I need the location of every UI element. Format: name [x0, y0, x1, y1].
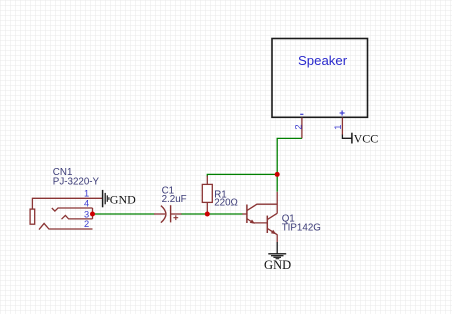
svg-text:GND: GND	[264, 258, 291, 272]
svg-text:2: 2	[84, 219, 89, 229]
svg-text:1: 1	[84, 188, 89, 198]
svg-text:4: 4	[84, 199, 89, 209]
svg-text:1: 1	[333, 125, 343, 130]
svg-text:2: 2	[294, 124, 304, 129]
svg-text:3: 3	[84, 209, 89, 219]
svg-text:PJ-3220-Y: PJ-3220-Y	[53, 177, 100, 188]
svg-text:220Ω: 220Ω	[214, 198, 238, 209]
svg-text:GND: GND	[110, 192, 136, 206]
svg-text:Speaker: Speaker	[298, 53, 348, 68]
svg-text:TIP142G: TIP142G	[282, 223, 321, 234]
svg-text:2.2uF: 2.2uF	[162, 194, 187, 205]
svg-text:VCC: VCC	[354, 132, 379, 146]
